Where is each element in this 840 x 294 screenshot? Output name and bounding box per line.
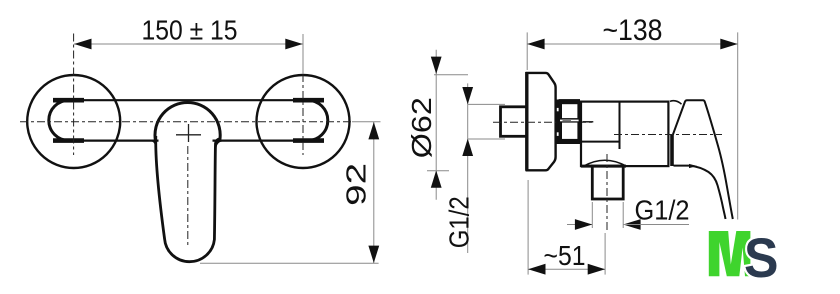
- lever underside: [674, 166, 726, 219]
- valve body bottom thick segment: [581, 165, 626, 168]
- grip right fillet: [216, 141, 223, 149]
- right connector collar thick bottom: [293, 138, 324, 143]
- valve body outline: [581, 102, 668, 167]
- dimension ~138 left arrow: [527, 39, 544, 50]
- dimension G1/2 inlet bottom extension: [468, 138, 505, 140]
- body tube right end cap: [308, 100, 328, 140]
- union hex nut centerline slit: [560, 120, 579, 122]
- dimension G1/2 inlet top arrow: [462, 87, 473, 104]
- dimension ~138 right arrow: [720, 39, 737, 50]
- dimension ~51 line: [528, 268, 605, 270]
- valve body joint line horizontal: [581, 141, 620, 143]
- dimension 150±15 line: [74, 43, 303, 45]
- horizontal centerline front view: [20, 121, 352, 123]
- svg-text:S: S: [744, 227, 779, 289]
- nut slit centerline dash: [563, 120, 572, 122]
- wall supply stub: [501, 107, 528, 137]
- dimension 92 extension top: [352, 121, 381, 123]
- svg-text:~138: ~138: [603, 14, 663, 47]
- body tube bottom edge right segment: [213, 140, 311, 142]
- grip centerline: [187, 146, 189, 248]
- dimension G1/2 outlet left line: [567, 224, 592, 226]
- svg-text:G1/2: G1/2: [444, 196, 475, 248]
- body inlet tick: [583, 121, 594, 123]
- dimension G1/2 inlet line: [467, 83, 469, 253]
- dome center cross vertical: [188, 124, 190, 142]
- outlet stub G1/2: [592, 166, 623, 199]
- left connector collar thick top: [53, 98, 84, 103]
- dimension Ø62 top extension: [434, 74, 468, 76]
- body axis centerline: [614, 134, 722, 136]
- vertical centerline left circle: [73, 34, 75, 156]
- dimension 150±15 right arrow: [285, 39, 302, 50]
- svg-text:Ø62: Ø62: [406, 97, 437, 158]
- left connector collar thick bottom: [53, 138, 84, 143]
- dimension ~51 right arrow: [588, 264, 605, 275]
- lever grip outline: [156, 136, 220, 262]
- svg-text:G1/2: G1/2: [635, 194, 690, 225]
- svg-text:~51: ~51: [544, 240, 586, 271]
- vertical centerline right circle: [302, 74, 304, 155]
- right connector collar thick top: [293, 98, 324, 103]
- grip left fillet: [152, 141, 156, 148]
- outlet dome arc: [584, 160, 626, 166]
- outlet stub centerline: [606, 154, 608, 233]
- union nut left collar: [556, 100, 559, 108]
- body tube bottom edge left segment: [66, 140, 159, 142]
- lever base flange: [670, 134, 674, 166]
- dimension Ø62 bottom extension: [427, 170, 449, 172]
- union hex nut body: [559, 99, 580, 144]
- lever dome: [155, 102, 220, 139]
- dimension G1/2 inlet top extension: [468, 103, 505, 105]
- svg-text:92: 92: [341, 163, 372, 206]
- inlet axis centerline: [493, 121, 594, 123]
- wall escutcheon disc wall-side thick edge: [525, 72, 528, 171]
- escutcheon circle right: [257, 75, 350, 168]
- dimension G1/2 inlet bottom arrow: [462, 139, 473, 156]
- dimension Ø62 bottom arrow: [431, 170, 442, 187]
- dimension G1/2 outlet shelf line: [623, 224, 689, 226]
- lever outline: [673, 100, 733, 219]
- dimension 92 extension bottom: [200, 262, 379, 264]
- dimension 150±15 left arrow: [74, 39, 91, 50]
- svg-text:150 ± 15: 150 ± 15: [142, 15, 238, 46]
- union hex nut lower window: [562, 123, 577, 139]
- cartridge cap arc: [670, 101, 682, 104]
- escutcheon circle left: [27, 75, 120, 168]
- dimension Ø62 top arrow: [431, 57, 442, 74]
- dimension 92 top arrow: [368, 122, 379, 139]
- dimension ~138 line: [527, 43, 738, 45]
- dimension ~138 right extension: [737, 32, 739, 219]
- body tube left end cap: [49, 100, 69, 140]
- lever underside tab: [689, 164, 697, 168]
- union hex nut upper window: [562, 104, 577, 118]
- dimension G1/2 outlet left extension: [591, 202, 593, 228]
- dimension ~51 left extension: [527, 180, 529, 275]
- wall escutcheon disc: [527, 73, 556, 170]
- dome center cross horizontal: [176, 134, 201, 136]
- dimension G1/2 outlet right arrow: [623, 219, 640, 230]
- valve body cartridge joint vertical: [619, 102, 621, 149]
- dimension G1/2 outlet left arrow: [575, 219, 592, 230]
- dimension Ø62 line: [435, 50, 437, 200]
- dimension 92 line: [373, 122, 375, 263]
- logo letter M green: [709, 231, 751, 276]
- dimension ~51 right extension: [604, 233, 606, 275]
- dimension G1/2 outlet right extension: [622, 202, 624, 228]
- body tube top edge: [66, 99, 310, 101]
- dimension ~51 left arrow: [528, 264, 545, 275]
- dimension ~138 left extension: [526, 32, 528, 70]
- dimension 92 bottom arrow: [368, 246, 379, 263]
- extension line right circle to dim: [302, 34, 304, 74]
